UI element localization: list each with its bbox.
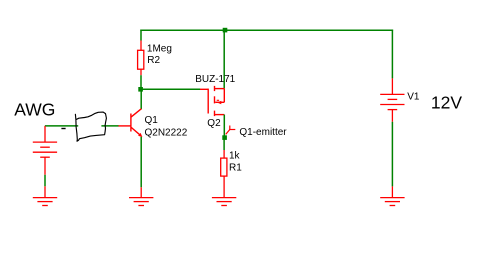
wire R2 bottom to collector node bbox=[140, 75, 142, 89]
transistor Q2 BUZ-171 MOSFET bbox=[200, 86, 224, 116]
Q2 drain stub bbox=[214, 88, 224, 90]
Q1 collector diagonal bbox=[131, 109, 141, 117]
wire Q2 drain from rail bbox=[223, 30, 225, 88]
svg-text:Q2: Q2 bbox=[207, 118, 221, 129]
svg-text:R1: R1 bbox=[229, 163, 242, 174]
lead V1 ground bbox=[391, 186, 393, 197]
svg-text:Q1: Q1 bbox=[145, 115, 159, 126]
wire V1 positive drop bbox=[391, 30, 393, 79]
net flag Q1-emitter bbox=[226, 126, 236, 135]
Q2 channel top segment bbox=[214, 86, 216, 91]
Q2 body vertical bbox=[223, 89, 225, 103]
Q2 channel bottom segment bbox=[214, 111, 216, 117]
annotation minus dash bbox=[61, 128, 65, 129]
svg-text:1Meg: 1Meg bbox=[147, 44, 172, 55]
lead Q1 emitter to ground bbox=[140, 187, 142, 197]
ground below Q1 bbox=[129, 198, 153, 206]
Q2 body arrow bbox=[217, 101, 221, 105]
Q2 channel middle segment bbox=[214, 96, 216, 103]
junction Q1-emitter node bbox=[222, 135, 227, 140]
ground below R1 bbox=[212, 198, 236, 206]
voltage source V1 battery bbox=[380, 78, 404, 121]
svg-text:R2: R2 bbox=[147, 55, 160, 66]
junction collector node bbox=[138, 87, 143, 92]
Q2 gate pin stub bbox=[200, 88, 208, 90]
wire top +12V rail bbox=[140, 29, 393, 31]
svg-text:AWG: AWG bbox=[14, 100, 55, 120]
wire AWG source to Q1 base bbox=[45, 125, 78, 127]
Q1 base bar bbox=[130, 114, 132, 132]
svg-text:V1: V1 bbox=[407, 92, 420, 103]
svg-text:12V: 12V bbox=[431, 92, 462, 112]
svg-text:Q1-emitter: Q1-emitter bbox=[239, 127, 287, 138]
Q1 emitter diagonal bbox=[131, 127, 141, 135]
wire node to R1 bbox=[223, 138, 225, 151]
Q2 gate bar bbox=[207, 89, 209, 114]
transistor Q1 Q2N2222 NPN bbox=[118, 109, 141, 136]
Q1 base lead bbox=[118, 125, 131, 127]
wire Q2 source to emitter node bbox=[223, 115, 225, 138]
ground below AWG bbox=[33, 198, 57, 206]
wire AWG battery to ground bbox=[44, 175, 46, 187]
annotation freehand blob bbox=[75, 112, 106, 141]
wire blob right segment to Q1 base bbox=[101, 125, 118, 127]
lead AWG ground bbox=[44, 186, 46, 197]
voltage source AWG battery bbox=[33, 126, 57, 175]
svg-text:1k: 1k bbox=[229, 151, 241, 162]
wire R2 top from rail bbox=[140, 30, 142, 41]
resistor R1 bbox=[221, 150, 227, 198]
resistor R2 bbox=[138, 41, 144, 76]
junction top rail / Q2 drain bbox=[223, 28, 228, 33]
wire Q1 emitter down bbox=[140, 137, 142, 188]
ground below V1 bbox=[380, 198, 404, 206]
Q1 emitter arrowhead bbox=[138, 133, 142, 137]
svg-text:BUZ-171: BUZ-171 bbox=[195, 74, 235, 85]
svg-text:Q2N2222: Q2N2222 bbox=[145, 128, 188, 139]
wire collector node down to Q1 collector bbox=[140, 89, 142, 109]
wire collector node to Q2 gate bbox=[141, 88, 200, 90]
wire V1 to ground bbox=[391, 122, 393, 187]
Q2 body stub bbox=[215, 101, 224, 103]
Q2 body arrow tail dash bbox=[217, 99, 219, 101]
Q2 source stub bbox=[214, 114, 224, 116]
